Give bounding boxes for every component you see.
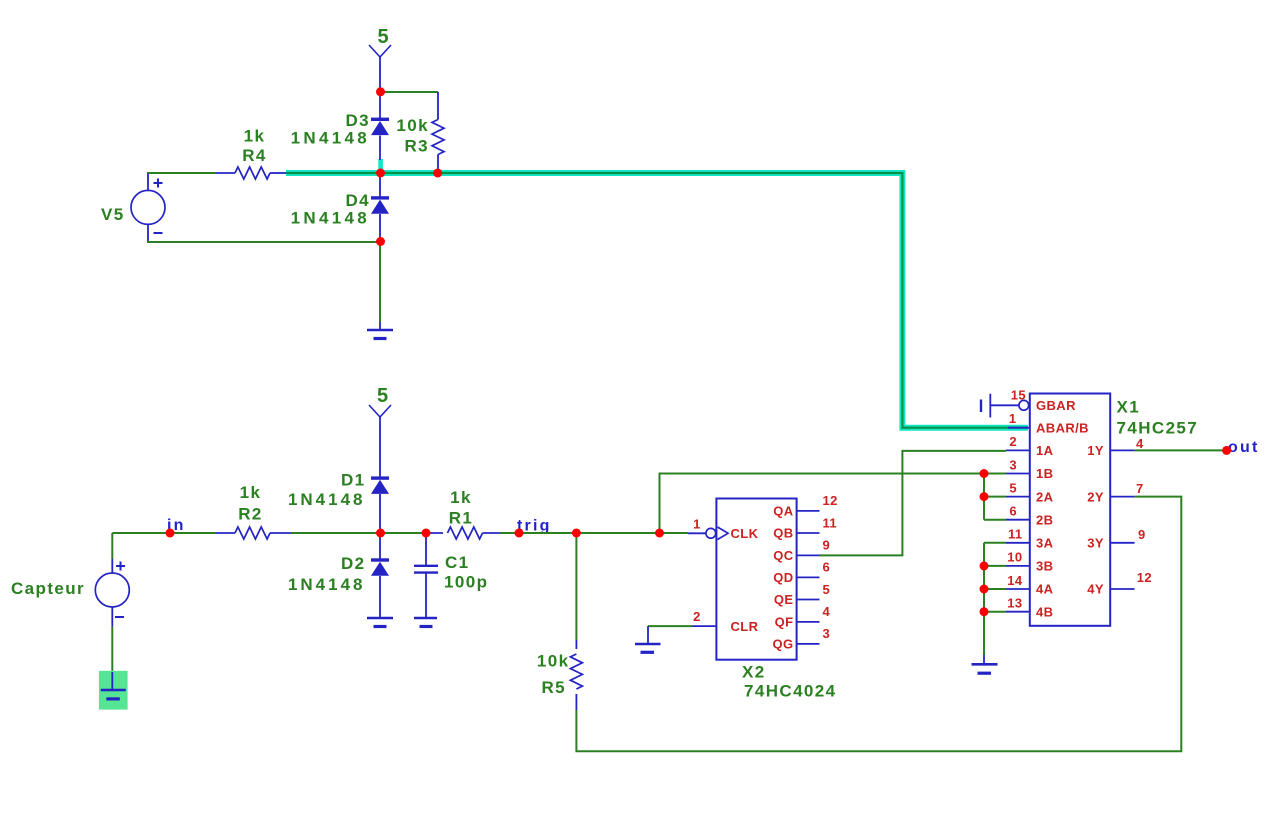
IC X2 74HC4024 body	[716, 499, 836, 701]
X1 output pin 4Y (pin 12)	[1087, 570, 1152, 597]
X2 output pin QB (pin 11)	[773, 515, 837, 540]
svg-text:74HC4024: 74HC4024	[744, 682, 836, 701]
node junction X1 4A tie	[980, 585, 989, 594]
svg-text:2Y: 2Y	[1087, 489, 1104, 504]
svg-text:QF: QF	[775, 615, 794, 630]
diode D3 1N4148	[291, 92, 389, 160]
source Capteur	[11, 559, 129, 627]
svg-text:12: 12	[1137, 570, 1152, 585]
svg-text:5: 5	[823, 582, 831, 597]
svg-text:1k: 1k	[244, 127, 266, 146]
svg-text:6: 6	[1009, 504, 1017, 519]
svg-text:V5: V5	[101, 205, 125, 224]
svg-text:1N4148: 1N4148	[291, 209, 370, 228]
node junction D3 anode on highlighted net	[376, 169, 385, 178]
svg-text:5: 5	[377, 385, 388, 407]
IC X1 74HC257 body	[1030, 394, 1198, 626]
svg-text:QA: QA	[773, 504, 794, 519]
svg-text:9: 9	[823, 538, 831, 553]
svg-text:13: 13	[1007, 596, 1022, 611]
svg-text:C1: C1	[445, 553, 470, 572]
wire R2 to D1/D2 node	[291, 532, 380, 534]
svg-text:2: 2	[1009, 434, 1017, 449]
svg-text:QB: QB	[773, 526, 793, 541]
wire D-node to C1 node	[380, 532, 426, 534]
X1 input pin 1B (pin 3)	[1006, 457, 1053, 481]
svg-text:1k: 1k	[240, 483, 262, 502]
svg-text:ABAR/B: ABAR/B	[1036, 421, 1089, 436]
label net trig	[517, 518, 552, 535]
svg-text:QC: QC	[773, 548, 794, 563]
svg-text:R3: R3	[404, 137, 429, 156]
svg-text:R5: R5	[541, 678, 566, 697]
X1 input pin 2B (pin 6)	[1006, 504, 1053, 528]
svg-text:11: 11	[823, 515, 838, 530]
node out	[1222, 446, 1231, 455]
node junction X1 4B tie	[980, 607, 989, 616]
selection highlight rectangle	[99, 671, 128, 710]
X1 output pin 2Y (pin 7)	[1087, 481, 1143, 504]
svg-text:1N4148: 1N4148	[288, 575, 366, 594]
svg-text:QE: QE	[774, 592, 794, 607]
ground (under C1)	[414, 610, 437, 627]
svg-text:out: out	[1228, 439, 1259, 456]
wire Capteur minus down to highlighted ground	[111, 627, 113, 672]
svg-text:12: 12	[823, 493, 838, 508]
wire R5-node to CLK node	[576, 532, 659, 534]
wire tie 3A/3B/4A/4B to ground	[984, 543, 1006, 655]
svg-text:15: 15	[1011, 388, 1026, 403]
wire V5 minus to D4 anode	[147, 241, 380, 243]
node junction C1 top	[422, 529, 431, 538]
svg-text:7: 7	[1136, 481, 1144, 496]
resistor R4 1k	[216, 127, 286, 180]
wire Capteur plus up to node in	[112, 533, 216, 559]
wire V5 plus to R4	[147, 172, 216, 174]
svg-text:1N4148: 1N4148	[288, 490, 366, 509]
power +5V supply (lower)	[369, 385, 391, 477]
svg-text:5: 5	[377, 26, 388, 48]
svg-text:4A: 4A	[1036, 582, 1054, 597]
svg-text:D3: D3	[345, 111, 370, 130]
svg-text:4: 4	[1136, 436, 1144, 451]
svg-text:1: 1	[693, 517, 701, 532]
svg-text:6: 6	[823, 560, 831, 575]
resistor R1 1k	[426, 488, 500, 539]
svg-text:74HC257: 74HC257	[1117, 419, 1199, 438]
diode D1 1N4148	[288, 471, 389, 534]
resistor R5 10k	[537, 533, 582, 710]
X2 output pin QA (pin 12)	[773, 493, 838, 518]
resistor R2 1k	[216, 483, 291, 539]
wire QC (pin 9) to X1 1A	[820, 451, 1007, 556]
svg-text:GBAR: GBAR	[1036, 398, 1076, 413]
svg-text:4: 4	[823, 604, 831, 619]
wire 5V rail to R3 top	[380, 91, 438, 93]
X1 pin 1 ABAR/B (highlighted net)	[1008, 411, 1089, 436]
svg-text:X1: X1	[1117, 398, 1141, 417]
ground (under D2)	[367, 610, 393, 627]
node junction X1 2A tie	[980, 492, 989, 501]
wire trig to R5 node	[519, 532, 576, 534]
label net out	[1228, 439, 1259, 456]
node junction R3 bottom on highlighted net	[433, 169, 442, 178]
capacitor C1 100p	[414, 533, 488, 610]
diode D4 1N4148	[291, 173, 389, 242]
svg-text:3Y: 3Y	[1087, 536, 1104, 551]
X1 input pin 3B (pin 10)	[1006, 550, 1053, 574]
svg-text:1Y: 1Y	[1087, 443, 1104, 458]
wire trig node up to X1 1B tie	[660, 474, 985, 534]
node junction X1 3B tie	[980, 561, 989, 570]
node junction D1/D2/R2/R1	[376, 529, 385, 538]
svg-text:2B: 2B	[1036, 512, 1053, 527]
svg-text:QG: QG	[772, 637, 793, 652]
node junction R5 top	[572, 529, 581, 538]
ground (Capteur, selected)	[101, 672, 126, 699]
svg-text:D4: D4	[345, 191, 370, 210]
svg-text:10: 10	[1007, 550, 1022, 565]
svg-text:4B: 4B	[1036, 604, 1053, 619]
svg-text:1A: 1A	[1036, 443, 1054, 458]
X1 input pin 2A (pin 5)	[1006, 480, 1054, 504]
svg-text:3: 3	[1009, 457, 1017, 472]
svg-text:10k: 10k	[537, 652, 570, 671]
resistor R3 10k	[396, 92, 444, 173]
X2 output pin QC (pin 9)	[773, 538, 830, 563]
feedback wire 2Y to R5 bottom	[576, 497, 1181, 752]
node trig	[515, 529, 524, 538]
svg-text:3: 3	[823, 626, 831, 641]
node junction X1 1B tie	[980, 469, 989, 478]
ground (X1 select inputs)	[972, 655, 998, 673]
svg-text:3A: 3A	[1036, 536, 1054, 551]
diode D2 1N4148	[288, 533, 389, 610]
svg-text:1: 1	[1009, 411, 1017, 426]
svg-text:1k: 1k	[450, 488, 472, 507]
svg-text:CLR: CLR	[731, 619, 759, 634]
ground (X2 CLR)	[635, 626, 661, 652]
svg-text:X2: X2	[742, 663, 766, 682]
voltage source V5	[101, 174, 165, 242]
X2 output pin QD (pin 6)	[773, 560, 830, 585]
wire R1 to node trig	[500, 532, 519, 534]
svg-text:1N4148: 1N4148	[291, 129, 370, 148]
svg-text:R2: R2	[238, 505, 263, 524]
wire D4 junction down to ground	[379, 242, 381, 322]
svg-text:1B: 1B	[1036, 466, 1053, 481]
highlighted net (cyan) from R4 to ABAR/B pin of X1	[286, 159, 1028, 428]
X1 input pin 4A (pin 14)	[1006, 573, 1054, 597]
X2 output pin QG (pin 3)	[772, 626, 830, 651]
X1 input pin 3A (pin 11)	[1006, 527, 1054, 551]
node junction D4 anode / V5 minus	[376, 237, 385, 246]
svg-text:R1: R1	[449, 509, 474, 528]
X1 input pin 1A (pin 2)	[1006, 434, 1054, 458]
svg-text:14: 14	[1007, 573, 1023, 588]
X1 output pin 1Y (pin 4) to out	[1087, 436, 1226, 458]
node in	[166, 529, 175, 538]
svg-text:CLK: CLK	[731, 526, 759, 541]
X1 input pin 4B (pin 13)	[1006, 596, 1053, 620]
svg-text:11: 11	[1008, 527, 1023, 542]
X2 pin 2 CLR input	[648, 609, 759, 634]
svg-text:Capteur: Capteur	[11, 579, 85, 598]
ground (top circuit)	[367, 322, 393, 339]
svg-text:D2: D2	[341, 554, 366, 573]
X2 output pin QF (pin 4)	[775, 604, 831, 629]
node junction 5V rail / R3 / D3 top	[376, 87, 385, 96]
svg-text:2: 2	[693, 609, 701, 624]
svg-text:4Y: 4Y	[1087, 582, 1104, 597]
X1 pin 15 GBAR input terminal with bubble	[981, 388, 1076, 418]
svg-text:9: 9	[1138, 527, 1146, 542]
power +5V supply (top)	[369, 26, 391, 92]
wire tie 1B/2A/2B	[984, 474, 1006, 520]
svg-text:2A: 2A	[1036, 489, 1054, 504]
svg-text:R4: R4	[242, 146, 267, 165]
X1 output pin 3Y (pin 9)	[1087, 527, 1145, 551]
label net in	[167, 517, 186, 534]
svg-text:QD: QD	[773, 570, 793, 585]
svg-text:D1: D1	[341, 471, 366, 490]
X2 output pin QE (pin 5)	[774, 582, 830, 607]
svg-text:5: 5	[1009, 480, 1017, 495]
svg-text:100p: 100p	[444, 573, 488, 592]
svg-text:10k: 10k	[396, 116, 429, 135]
svg-text:3B: 3B	[1036, 559, 1053, 574]
X2 pin 1 CLK input with bubble	[660, 517, 759, 542]
node junction CLK branch	[655, 529, 664, 538]
